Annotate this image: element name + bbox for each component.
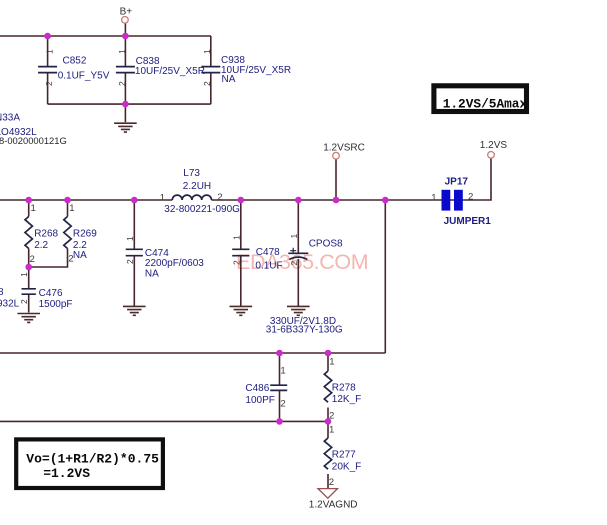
svg-text:2: 2 [44,81,54,86]
svg-text:R269: R269 [73,229,97,240]
svg-text:2: 2 [280,399,285,410]
svg-text:2: 2 [68,254,73,265]
svg-text:R268: R268 [34,229,58,240]
svg-text:2: 2 [329,477,334,488]
svg-text:2: 2 [125,259,135,264]
svg-text:2: 2 [30,254,35,265]
svg-text:2: 2 [19,299,29,304]
svg-text:1.2VS: 1.2VS [480,140,508,151]
svg-text:1: 1 [31,203,36,214]
svg-text:C852: C852 [63,55,87,66]
svg-text:1.2VS/5Amax: 1.2VS/5Amax [443,96,528,111]
svg-text:JP17: JP17 [445,177,469,188]
svg-text:1: 1 [160,193,165,204]
svg-text:N33A: N33A [0,113,20,124]
svg-text:1.2VAGND: 1.2VAGND [309,499,358,510]
svg-text:2: 2 [289,261,299,266]
svg-text:0.1UF: 0.1UF [255,260,282,271]
svg-text:2: 2 [117,81,127,86]
svg-text:20K_F: 20K_F [332,461,361,472]
svg-text:1: 1 [329,425,334,436]
svg-text:Vo=(1+R1/R2)*0.75: Vo=(1+R1/R2)*0.75 [26,452,159,467]
svg-text:1: 1 [69,203,74,214]
svg-text:8-0020000121G: 8-0020000121G [0,135,67,146]
svg-text:C486: C486 [245,383,269,394]
svg-text:1.2VSRC: 1.2VSRC [323,142,365,153]
svg-text:1: 1 [289,234,299,239]
svg-text:1: 1 [125,236,135,241]
svg-text:2: 2 [468,192,473,203]
svg-text:1: 1 [431,193,436,204]
svg-text:NA: NA [73,250,87,261]
svg-text:1: 1 [202,49,212,54]
svg-text:CPOS8: CPOS8 [309,238,343,249]
svg-text:=1.2VS: =1.2VS [43,466,90,481]
svg-text:8: 8 [0,287,4,298]
svg-text:2: 2 [202,81,212,86]
svg-text:1500pF: 1500pF [39,299,73,310]
svg-text:1: 1 [232,235,242,240]
svg-text:32-800221-090G: 32-800221-090G [164,204,240,215]
svg-text:1: 1 [19,272,29,277]
svg-text:100PF: 100PF [245,395,274,406]
svg-text:C478: C478 [256,247,280,258]
svg-text:NA: NA [222,74,236,85]
svg-text:12K_F: 12K_F [332,394,361,405]
svg-text:1: 1 [280,366,285,377]
svg-text:R278: R278 [332,382,356,393]
svg-text:NA: NA [145,268,159,279]
svg-text:2.2UH: 2.2UH [183,181,211,192]
svg-text:R277: R277 [332,449,356,460]
svg-text:2: 2 [232,260,242,265]
svg-text:31-6B337Y-130G: 31-6B337Y-130G [266,325,343,336]
svg-text:2: 2 [217,192,222,203]
svg-text:C476: C476 [39,288,63,299]
svg-text:L73: L73 [183,168,200,179]
svg-text:B+: B+ [120,6,133,17]
svg-text:1: 1 [117,49,127,54]
svg-text:932L: 932L [0,299,20,310]
svg-text:0.1UF_Y5V: 0.1UF_Y5V [58,70,110,81]
svg-text:2: 2 [329,411,334,422]
svg-text:1: 1 [329,357,334,368]
svg-text:JUMPER1: JUMPER1 [444,216,492,227]
svg-text:2.2: 2.2 [34,240,48,251]
svg-text:10UF/25V_X5R: 10UF/25V_X5R [135,66,205,77]
svg-text:1: 1 [45,49,55,54]
